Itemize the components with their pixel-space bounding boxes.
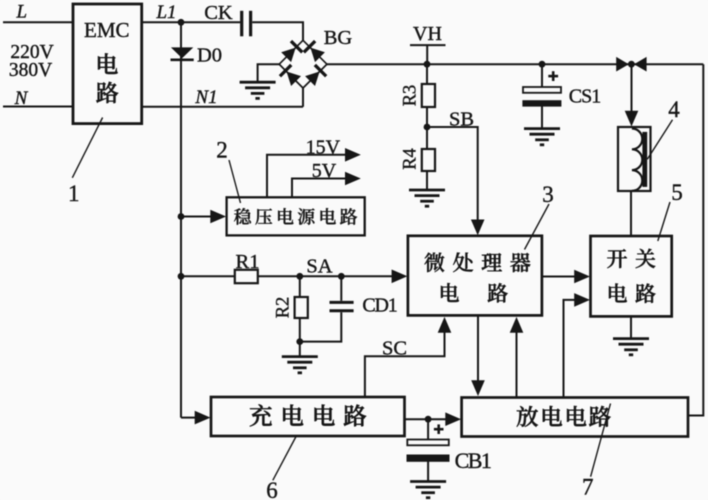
svg-text:2: 2: [216, 138, 228, 163]
svg-text:L: L: [16, 2, 28, 23]
svg-text:R2: R2: [274, 297, 294, 319]
svg-text:R4: R4: [401, 148, 421, 170]
svg-text:CK: CK: [204, 2, 233, 24]
svg-text:VH: VH: [413, 23, 442, 45]
svg-text:5V: 5V: [312, 160, 337, 182]
svg-text:SC: SC: [382, 338, 407, 360]
svg-text:CB1: CB1: [455, 448, 491, 473]
svg-text:4: 4: [668, 97, 680, 122]
svg-text:D0: D0: [197, 45, 222, 67]
svg-text:7: 7: [582, 475, 594, 500]
svg-text:R3: R3: [401, 85, 421, 107]
svg-text:SA: SA: [306, 256, 332, 278]
svg-text:L1: L1: [155, 2, 176, 23]
svg-text:SB: SB: [449, 109, 474, 131]
svg-text:N: N: [14, 88, 29, 109]
svg-text:3: 3: [542, 182, 554, 207]
svg-text:CS1: CS1: [569, 86, 600, 108]
svg-text:CD1: CD1: [362, 295, 396, 317]
svg-text:5: 5: [671, 180, 683, 205]
svg-text:R1: R1: [236, 251, 260, 273]
svg-text:EMC: EMC: [84, 18, 130, 42]
svg-text:N1: N1: [194, 87, 217, 108]
svg-text:15V: 15V: [306, 137, 341, 159]
svg-text:6: 6: [266, 478, 278, 500]
svg-text:380V: 380V: [9, 60, 52, 81]
svg-text:BG: BG: [324, 27, 353, 49]
svg-text:1: 1: [68, 181, 80, 206]
